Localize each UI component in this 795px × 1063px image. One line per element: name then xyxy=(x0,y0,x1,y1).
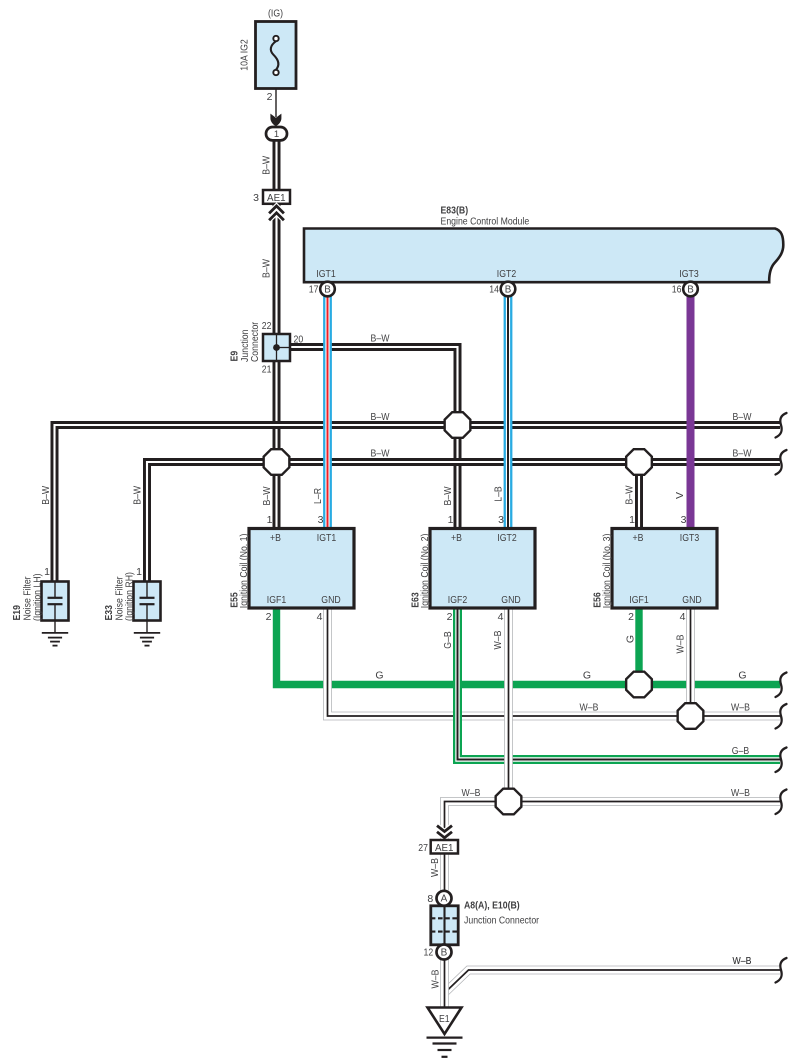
svg-text:B: B xyxy=(687,284,694,295)
svg-text:B–W: B–W xyxy=(260,156,272,175)
svg-text:2: 2 xyxy=(447,611,453,623)
svg-text:GND: GND xyxy=(682,594,702,606)
svg-text:B: B xyxy=(441,947,448,958)
svg-text:8: 8 xyxy=(427,893,433,905)
svg-text:1: 1 xyxy=(448,514,454,526)
svg-text:IGT1: IGT1 xyxy=(317,532,337,544)
svg-text:E1: E1 xyxy=(439,1013,450,1025)
svg-text:1: 1 xyxy=(274,129,279,140)
svg-text:1: 1 xyxy=(44,566,50,578)
svg-text:+B: +B xyxy=(451,532,462,544)
svg-text:IGT2: IGT2 xyxy=(497,268,517,280)
svg-text:3: 3 xyxy=(681,514,687,526)
svg-text:B–W: B–W xyxy=(733,411,752,423)
svg-text:B–W: B–W xyxy=(371,332,390,344)
svg-text:Junction Connector: Junction Connector xyxy=(464,914,540,926)
svg-text:B–W: B–W xyxy=(371,448,390,460)
svg-text:G–B: G–B xyxy=(442,631,454,648)
svg-text:1: 1 xyxy=(267,514,273,526)
svg-text:B: B xyxy=(324,284,331,295)
svg-text:B–W: B–W xyxy=(442,486,454,505)
svg-text:B–W: B–W xyxy=(261,486,273,505)
svg-text:2: 2 xyxy=(267,91,273,103)
svg-text:AE1: AE1 xyxy=(435,842,454,854)
svg-text:W–B: W–B xyxy=(429,858,441,877)
svg-text:A8(A), E10(B): A8(A), E10(B) xyxy=(464,900,520,912)
svg-text:G: G xyxy=(738,670,746,682)
svg-text:3: 3 xyxy=(318,514,324,526)
svg-text:G: G xyxy=(583,670,591,682)
svg-text:W–B: W–B xyxy=(733,955,752,967)
svg-text:W–B: W–B xyxy=(429,970,441,989)
svg-text:14: 14 xyxy=(489,284,499,296)
svg-text:W–B: W–B xyxy=(462,787,481,799)
svg-text:17: 17 xyxy=(309,284,319,296)
svg-text:(IG): (IG) xyxy=(268,8,283,20)
svg-text:B–W: B–W xyxy=(624,485,636,504)
svg-text:Ignition Coil (No. 2): Ignition Coil (No. 2) xyxy=(419,534,431,609)
svg-text:1: 1 xyxy=(629,514,635,526)
svg-text:4: 4 xyxy=(498,611,504,623)
svg-text:IGT3: IGT3 xyxy=(679,268,699,280)
svg-text:V: V xyxy=(674,492,686,499)
svg-text:W–B: W–B xyxy=(492,631,504,650)
svg-text:20: 20 xyxy=(294,333,304,345)
svg-text:2: 2 xyxy=(628,611,634,623)
svg-text:4: 4 xyxy=(317,611,323,623)
svg-text:Ignition Coil (No. 3): Ignition Coil (No. 3) xyxy=(601,534,613,609)
svg-text:G–B: G–B xyxy=(732,745,749,757)
svg-text:3: 3 xyxy=(498,514,504,526)
svg-text:+B: +B xyxy=(633,532,644,544)
svg-text:27: 27 xyxy=(418,842,428,854)
svg-text:AE1: AE1 xyxy=(267,192,286,204)
svg-text:Engine Control Module: Engine Control Module xyxy=(441,216,530,228)
svg-text:3: 3 xyxy=(253,192,259,204)
svg-text:22: 22 xyxy=(262,320,272,332)
svg-text:16: 16 xyxy=(672,284,682,296)
svg-text:G: G xyxy=(375,670,383,682)
svg-text:1: 1 xyxy=(136,566,142,578)
svg-text:Connector: Connector xyxy=(249,321,261,362)
svg-text:21: 21 xyxy=(262,364,272,376)
svg-text:W–B: W–B xyxy=(731,701,750,713)
svg-text:IGF1: IGF1 xyxy=(267,594,287,606)
svg-text:W–B: W–B xyxy=(580,701,599,713)
svg-text:B–W: B–W xyxy=(260,259,272,278)
svg-text:B–W: B–W xyxy=(40,486,52,505)
svg-text:IGT2: IGT2 xyxy=(497,532,517,544)
svg-text:IGF1: IGF1 xyxy=(629,594,649,606)
svg-text:L–B: L–B xyxy=(493,486,505,502)
svg-text:(Ignition LH): (Ignition LH) xyxy=(31,574,43,622)
svg-text:IGT3: IGT3 xyxy=(680,532,700,544)
svg-text:B–W: B–W xyxy=(733,448,752,460)
svg-text:W–B: W–B xyxy=(675,635,687,654)
svg-text:A: A xyxy=(441,894,448,905)
svg-text:GND: GND xyxy=(501,594,521,606)
svg-text:+B: +B xyxy=(270,532,281,544)
svg-text:W–B: W–B xyxy=(731,787,750,799)
svg-text:L–R: L–R xyxy=(312,488,324,504)
svg-text:(Ignition RH): (Ignition RH) xyxy=(123,572,135,621)
svg-text:GND: GND xyxy=(321,594,341,606)
svg-text:B–W: B–W xyxy=(371,411,390,423)
svg-text:B–W: B–W xyxy=(132,486,144,505)
svg-text:G: G xyxy=(625,635,637,643)
svg-text:4: 4 xyxy=(680,611,686,623)
svg-text:10A IG2: 10A IG2 xyxy=(239,39,251,71)
svg-text:Ignition Coil (No. 1): Ignition Coil (No. 1) xyxy=(238,534,250,609)
svg-text:B: B xyxy=(505,284,512,295)
svg-text:IGF2: IGF2 xyxy=(448,594,468,606)
svg-text:2: 2 xyxy=(266,611,272,623)
svg-text:12: 12 xyxy=(424,947,434,959)
svg-text:IGT1: IGT1 xyxy=(316,268,336,280)
